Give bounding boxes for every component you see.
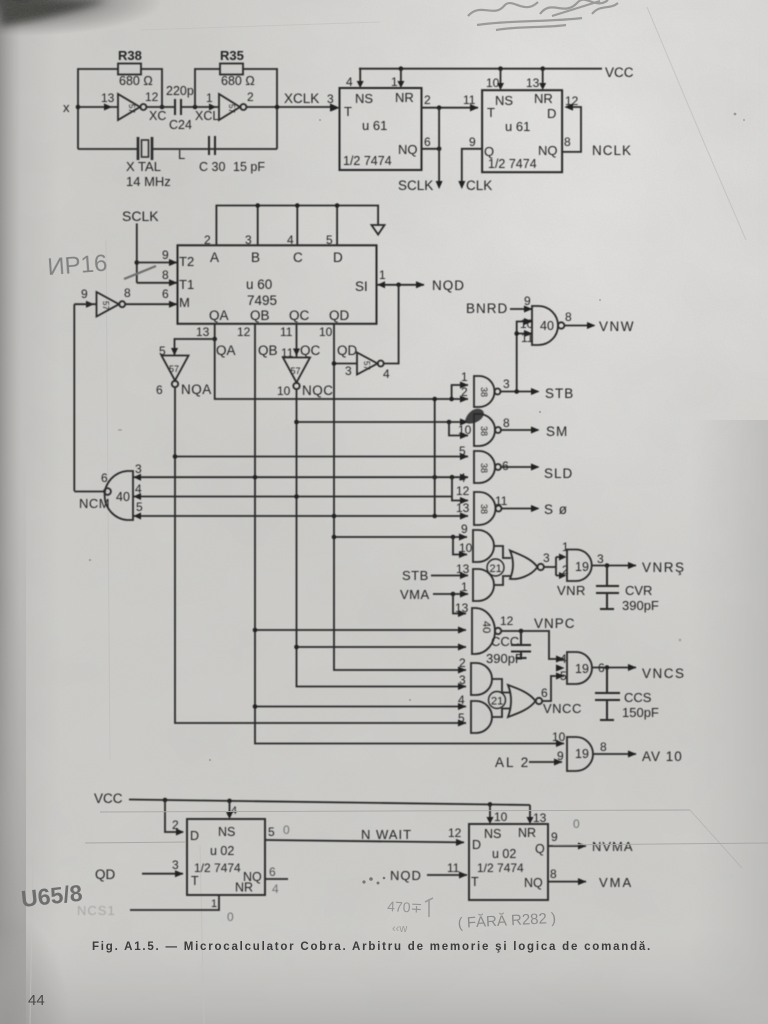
svg-text:57: 57: [291, 366, 301, 376]
circled 21 label: [489, 692, 506, 709]
svg-text:QA: QA: [216, 343, 236, 358]
node on Q wire: [437, 105, 442, 110]
svg-text:11: 11: [463, 93, 476, 107]
svg-text:NQ: NQ: [538, 143, 558, 158]
NQD input wire: [390, 861, 468, 883]
wire NQD inverter output up to SI node: [384, 285, 399, 364]
FF2 NR pin 13 feed: [526, 69, 546, 90]
svg-text:21: 21: [491, 696, 503, 708]
svg-text:2: 2: [172, 818, 179, 832]
VNRS output wire: [592, 560, 686, 575]
svg-text:10: 10: [520, 317, 534, 331]
svg-text:D: D: [547, 106, 556, 121]
NQ output to VMA: [548, 867, 633, 890]
svg-text:NCM: NCM: [79, 496, 110, 511]
svg-text:11: 11: [280, 325, 293, 339]
label L: [178, 147, 185, 162]
wire NCM output to left rail: [74, 491, 104, 493]
resistor R38: [118, 48, 153, 88]
left rail from NCM up to inverter input: [74, 304, 96, 491]
svg-text:680 Ω: 680 Ω: [221, 74, 255, 88]
svg-text:VMA: VMA: [400, 587, 430, 602]
svg-text:VNRŞ: VNRŞ: [642, 560, 686, 575]
svg-text:2: 2: [459, 656, 466, 670]
svg-text:1: 1: [461, 370, 468, 384]
svg-text:9: 9: [461, 522, 468, 536]
wire NQA to SLD pin 5: [175, 456, 468, 458]
wire QA bus to STB inputs: [215, 339, 468, 399]
wire left rail of oscillator loop: [78, 69, 162, 149]
svg-text:10: 10: [458, 423, 472, 437]
svg-text:NS: NS: [484, 827, 501, 841]
svg-text:T: T: [471, 875, 479, 889]
svg-text:12: 12: [500, 614, 514, 628]
wire oscillator bottom rail: [78, 148, 277, 150]
svg-text:11: 11: [447, 861, 460, 875]
svg-text:4: 4: [287, 233, 294, 247]
FF1 NS pin 4 feed: [346, 69, 364, 89]
svg-text:2: 2: [204, 233, 211, 247]
QD pin 10 bus down to VNCC: [319, 324, 467, 674]
VNR wire to and19: [544, 540, 586, 598]
svg-text:VNCS: VNCS: [642, 666, 686, 681]
nand U38d -> S0: [456, 484, 508, 525]
svg-text:10: 10: [486, 76, 500, 90]
pencil slash correction mark: [124, 266, 156, 279]
wire SCLK drop: [398, 108, 443, 193]
svg-text:5: 5: [459, 444, 466, 458]
svg-text:1: 1: [391, 75, 398, 89]
svg-text:6: 6: [424, 135, 431, 149]
wire NQ pin8 to D pin12 loop (NCLK): [562, 94, 632, 158]
svg-text:SI: SI: [355, 279, 368, 294]
nand U38b -> SM: [458, 414, 510, 446]
svg-text:NS: NS: [218, 825, 235, 839]
inverter U3a (pins 13->12): [101, 90, 159, 120]
ink smudge: [465, 409, 484, 424]
svg-text:Q: Q: [535, 842, 545, 856]
nand U40b -> VNPC: [455, 601, 514, 654]
flip-flop U02b box: [469, 824, 548, 900]
svg-text:3: 3: [245, 233, 252, 247]
svg-text:3: 3: [503, 377, 510, 391]
wire QD to VNR pin 9: [334, 536, 467, 538]
flip-flop U61b box: [482, 90, 562, 172]
capacitor C30 15pF: [199, 136, 265, 174]
nand U38c -> SLD: [459, 444, 509, 485]
svg-text:A: A: [210, 250, 219, 265]
STB output wire: [501, 386, 575, 401]
svg-text:u 60: u 60: [246, 277, 272, 292]
svg-text:21: 21: [490, 563, 502, 575]
svg-text:QA: QA: [209, 308, 229, 323]
node XC: [160, 105, 165, 110]
capacitor C24 220p: [166, 84, 194, 132]
svg-text:N WAIT: N WAIT: [361, 827, 412, 842]
SLD output wire: [501, 464, 573, 482]
vertical V435 QA branch down: [434, 399, 436, 516]
svg-text:19: 19: [575, 662, 589, 676]
svg-text:T2: T2: [179, 254, 194, 269]
SM output wire: [501, 424, 568, 439]
svg-text:u 02: u 02: [492, 847, 516, 861]
and U21d (VNCC bottom): [458, 693, 492, 733]
svg-text:10: 10: [552, 730, 566, 744]
svg-text:1: 1: [379, 268, 386, 282]
svg-text:T: T: [487, 105, 495, 120]
svg-text:57: 57: [169, 364, 179, 374]
svg-text:6: 6: [269, 865, 276, 879]
QB pin 12 bus down to AV10 line: [237, 324, 565, 747]
Q pin 5 to N WAIT: [265, 825, 465, 846]
circled 21 label: [487, 559, 504, 576]
node x junction: [76, 105, 81, 110]
svg-text:1/2 7474: 1/2 7474: [477, 861, 524, 875]
inverter U3b (pins 1->2): [206, 90, 254, 120]
svg-text:XCL: XCL: [195, 109, 219, 123]
svg-text:ИР16: ИР16: [47, 250, 109, 281]
inverter NQA (5->6): [156, 356, 212, 398]
svg-text:STB: STB: [402, 568, 429, 583]
wire inverter out to M pin 6: [125, 287, 177, 308]
svg-text:T: T: [344, 104, 352, 119]
svg-text:CVR: CVR: [625, 583, 652, 598]
VMA input wire: [400, 587, 469, 602]
node SI/NQD: [396, 283, 401, 288]
svg-text:NR: NR: [518, 826, 536, 840]
wire to T1 pin 8: [137, 268, 178, 286]
S0 output wire: [502, 502, 569, 517]
NQC bus down to VNCC pin 3 line: [297, 389, 467, 686]
svg-text:8: 8: [503, 416, 510, 430]
svg-text:QB: QB: [258, 343, 278, 358]
svg-text:u 61: u 61: [362, 118, 387, 133]
wire C24 to XCL node: [181, 106, 219, 108]
svg-text:B: B: [251, 250, 260, 265]
svg-text:SM: SM: [546, 424, 568, 439]
register U60 box: [178, 245, 377, 323]
svg-text:10: 10: [459, 541, 473, 555]
svg-text:XC: XC: [149, 109, 166, 123]
AV10 output wire: [594, 749, 683, 764]
svg-text:AV 10: AV 10: [642, 749, 683, 764]
svg-text:VCC: VCC: [605, 65, 634, 80]
svg-text:38: 38: [479, 463, 489, 473]
svg-text:150pF: 150pF: [622, 705, 659, 720]
handwritten 470 note: [425, 898, 433, 917]
svg-text:40: 40: [480, 621, 492, 633]
svg-text:NR: NR: [534, 91, 553, 106]
svg-text:QD: QD: [95, 867, 116, 882]
svg-text:NQD: NQD: [390, 868, 422, 883]
nand U38a -> STB: [461, 370, 510, 407]
svg-text:12: 12: [456, 484, 470, 498]
svg-text:3: 3: [345, 364, 352, 378]
svg-text:19: 19: [575, 747, 589, 761]
svg-text:R35: R35: [220, 48, 244, 63]
svg-text:D: D: [333, 250, 343, 265]
wire to T2 pin 9: [137, 248, 178, 266]
svg-text:C24: C24: [169, 118, 192, 132]
svg-text:13: 13: [533, 811, 547, 825]
svg-text:390pF: 390pF: [486, 651, 523, 666]
svg-text:4: 4: [458, 693, 465, 707]
svg-text:14 MHz: 14 MHz: [126, 174, 171, 189]
crystal XTAL 14MHz: [126, 137, 171, 189]
svg-text:1/2 7474: 1/2 7474: [343, 154, 392, 168]
FF1 NR pin 1 feed: [391, 69, 404, 89]
input bus A-D top: [204, 206, 378, 248]
SCLK label and wire: [122, 208, 159, 283]
BNRD input wire: [466, 301, 533, 316]
wire QB branch to VNCC pin 4: [255, 706, 466, 708]
svg-text:8: 8: [124, 286, 131, 300]
svg-text:9: 9: [551, 830, 558, 844]
wire CLK drop from Q pin9: [458, 135, 492, 193]
svg-text:15 pF: 15 pF: [233, 160, 265, 174]
nor U28a (VNR): [510, 551, 550, 580]
and U19c -> AV10: [552, 730, 607, 771]
NQ pin 6 stub: [265, 865, 288, 879]
svg-text:470∓: 470∓: [387, 898, 423, 916]
svg-text:4: 4: [346, 75, 353, 89]
svg-text:4: 4: [459, 471, 466, 485]
NS pin 4 feed: [226, 801, 237, 819]
svg-text:12: 12: [237, 325, 251, 339]
svg-text:9: 9: [162, 248, 169, 262]
svg-text:6: 6: [541, 686, 548, 700]
svg-text:VNW: VNW: [599, 319, 635, 334]
svg-text:3: 3: [172, 858, 179, 872]
svg-text:57: 57: [127, 104, 136, 113]
svg-text:4: 4: [383, 367, 390, 381]
wire XCLK output: [246, 106, 336, 108]
svg-text:5: 5: [326, 233, 333, 247]
svg-text:5: 5: [136, 500, 143, 514]
nor U28b (VNCC): [508, 685, 548, 717]
FF2 NS pin 10 feed: [486, 69, 504, 90]
svg-text:13: 13: [101, 91, 115, 105]
svg-text:S ø: S ø: [544, 502, 568, 517]
svg-text:12: 12: [448, 826, 462, 840]
step wires AND outputs to NOR: [494, 546, 511, 585]
bracket VNR pin 10: [453, 537, 467, 555]
svg-text:QD: QD: [329, 308, 350, 323]
svg-text:6: 6: [156, 383, 163, 397]
QD input wire: [95, 858, 184, 882]
svg-text:9: 9: [524, 294, 531, 308]
svg-text:0: 0: [573, 817, 580, 831]
VNPC output wire: [501, 616, 575, 663]
junction dots on VCC rail: [399, 66, 404, 71]
svg-text:10: 10: [494, 810, 508, 824]
svg-text:7495: 7495: [247, 293, 277, 308]
svg-text:L: L: [178, 147, 185, 162]
ground symbol on bus: [372, 225, 385, 235]
svg-text:Fig. A1.5. — Microcalculator C: Fig. A1.5. — Microcalculator Cobra. Arbi…: [92, 941, 652, 953]
svg-text:6: 6: [101, 471, 108, 485]
svg-text:57: 57: [362, 361, 371, 370]
svg-text:NR: NR: [235, 881, 253, 895]
svg-text:2: 2: [424, 93, 431, 107]
wire input to inverter: [78, 106, 118, 108]
QC pin 11 stub to NQC inverter: [280, 324, 321, 360]
svg-text:12: 12: [145, 90, 159, 104]
svg-text:8: 8: [564, 135, 571, 149]
svg-text:5: 5: [268, 825, 275, 839]
svg-text:BNRD: BNRD: [466, 301, 508, 316]
svg-text:2: 2: [247, 90, 254, 104]
svg-text:57: 57: [101, 301, 110, 310]
svg-text:NR: NR: [395, 90, 414, 105]
node x label: [63, 100, 70, 115]
svg-text:680 Ω: 680 Ω: [119, 74, 153, 88]
NS pin 10 feed: [487, 804, 508, 824]
QA pin 13 stub: [196, 324, 236, 358]
bracket VMA to VNPC pin 13: [453, 594, 466, 614]
svg-text:12: 12: [565, 94, 579, 108]
inverter NQC (11->10): [277, 358, 334, 399]
svg-text:NQD: NQD: [432, 278, 465, 293]
svg-text:u 02: u 02: [210, 844, 234, 858]
svg-text:QD: QD: [337, 343, 358, 358]
capacitor CVR 390pF: [596, 566, 659, 614]
svg-text:9: 9: [81, 287, 88, 301]
svg-text:6: 6: [502, 459, 509, 473]
svg-text:T1: T1: [179, 277, 194, 292]
bracket STB pin1: [452, 385, 468, 399]
svg-text:XCLK: XCLK: [284, 91, 319, 106]
svg-text:1: 1: [211, 898, 217, 910]
svg-text:13: 13: [526, 76, 540, 90]
svg-text:D: D: [472, 838, 481, 852]
VNW output wire: [564, 310, 635, 334]
svg-text:x: x: [63, 100, 70, 115]
VCC rail: [359, 65, 634, 80]
svg-text:STB: STB: [545, 386, 574, 401]
pin 3 arrow into T: [331, 104, 340, 111]
and U21c (VNCC top): [459, 656, 492, 695]
wire inverter output to XC: [146, 106, 175, 108]
wire NQC to SM top input: [297, 421, 469, 423]
svg-text:1/2 7474: 1/2 7474: [488, 157, 537, 171]
svg-text:44: 44: [28, 992, 45, 1009]
AL2 input wire: [495, 755, 563, 770]
svg-text:1/2 7474: 1/2 7474: [194, 861, 241, 875]
svg-text:4: 4: [560, 652, 567, 666]
VNCS output wire: [592, 664, 686, 681]
svg-text:R38: R38: [118, 48, 142, 63]
svg-text:NQC: NQC: [302, 383, 334, 398]
pin4 stub from VNPC wire: [556, 665, 565, 672]
svg-text:40: 40: [116, 490, 130, 504]
nand NCM (left-pointing, out 6): [79, 462, 143, 520]
inverter U5 (9->8) before M: [81, 286, 131, 317]
capacitor CCC 390pF: [486, 631, 531, 666]
svg-text:NVMA: NVMA: [592, 839, 634, 854]
svg-text:QC: QC: [289, 308, 310, 323]
svg-text:VNPC: VNPC: [534, 616, 576, 631]
wire NQC branch to VNPC pin 3: [297, 646, 467, 648]
bracket S0 pin 12: [452, 477, 468, 500]
svg-text:NQ: NQ: [398, 142, 418, 157]
svg-text:5: 5: [560, 669, 567, 683]
svg-text:19: 19: [575, 560, 589, 574]
svg-text:0: 0: [283, 823, 290, 837]
wire NCM pin5 line (to S0 pin13): [133, 515, 468, 517]
svg-text:8: 8: [162, 268, 169, 282]
wire NCM pin3 line (to SLD pin4): [133, 476, 468, 478]
svg-text:4: 4: [231, 805, 237, 817]
svg-text:8: 8: [565, 310, 572, 324]
svg-text:CCS: CCS: [624, 690, 652, 705]
svg-text:NS: NS: [355, 91, 373, 106]
svg-text:0: 0: [227, 910, 234, 924]
wire FF1 NQ pin6 stub: [422, 135, 440, 149]
svg-text:CCC: CCC: [491, 634, 519, 649]
and U21a (VNR top): [459, 522, 494, 562]
VCC rail bottom: [94, 791, 530, 806]
svg-text:SCLK: SCLK: [122, 208, 159, 224]
and U21b (VNR bottom, STB/VMA): [456, 562, 494, 601]
svg-text:220p: 220p: [166, 84, 194, 98]
svg-text:VNR: VNR: [557, 583, 586, 598]
svg-text:‹‹w: ‹‹w: [392, 923, 407, 935]
svg-text:6: 6: [162, 287, 169, 301]
D pin 2 feed: [165, 800, 184, 836]
capacitor CCS 150pF: [595, 668, 659, 721]
svg-text:8: 8: [600, 740, 607, 754]
wire QA branch to NQA inverter: [159, 339, 215, 358]
svg-text:SCLK: SCLK: [398, 178, 433, 193]
svg-text:C: C: [293, 250, 303, 265]
svg-text:QB: QB: [250, 308, 270, 323]
svg-text:38: 38: [479, 504, 489, 514]
svg-text:10: 10: [319, 325, 333, 339]
svg-text:T: T: [191, 874, 199, 888]
nand U40a BNRD -> VNW: [520, 294, 564, 345]
svg-text:Q: Q: [484, 144, 494, 159]
wire NCM pin4 line: [133, 496, 452, 498]
inverter QD->NQD (3->4): [357, 353, 390, 382]
top-right pencil scribble: [468, 0, 618, 30]
and U19b -> VNCS: [560, 652, 605, 684]
svg-text:2: 2: [562, 563, 569, 577]
svg-text:1: 1: [206, 91, 213, 105]
SI wire with NQD node: [377, 268, 465, 293]
svg-text:NQ: NQ: [524, 876, 543, 890]
svg-text:38: 38: [479, 387, 489, 397]
svg-text:11: 11: [495, 494, 508, 508]
svg-text:VCC: VCC: [94, 791, 123, 806]
svg-text:NS: NS: [495, 93, 513, 108]
svg-text:10: 10: [277, 384, 291, 398]
svg-text:57: 57: [227, 104, 236, 113]
svg-text:40: 40: [540, 319, 554, 333]
svg-text:u 61: u 61: [505, 119, 530, 134]
svg-text:5: 5: [458, 711, 465, 725]
bracket pins 10/11 from STB node: [517, 322, 532, 393]
and U19a -> VNRS: [567, 550, 604, 582]
wire FF1 Q pin2 to FF2 T pin11: [422, 93, 479, 111]
resistor R35: [220, 48, 255, 88]
svg-text:NQA: NQA: [181, 382, 212, 397]
svg-text:M: M: [179, 295, 190, 310]
svg-text:C 30: C 30: [199, 160, 225, 174]
pencil dots near NQD: [362, 877, 385, 885]
Q output to NVMA: [548, 830, 634, 854]
svg-text:AL 2: AL 2: [495, 755, 530, 770]
